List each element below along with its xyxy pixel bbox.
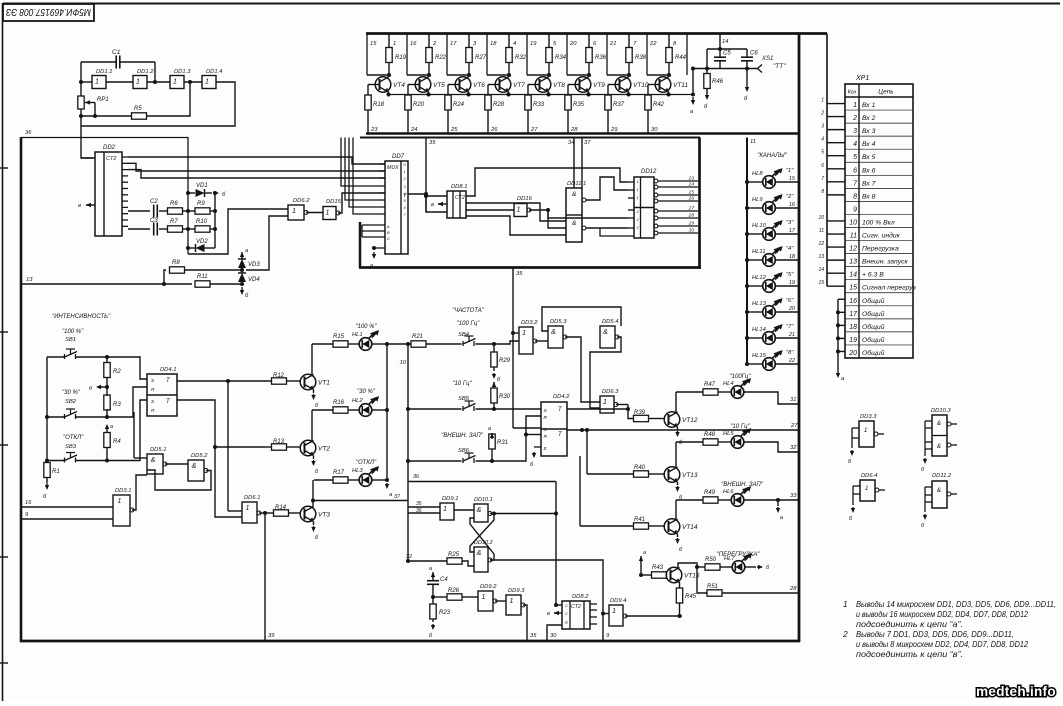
LED HL15 channel 8 bbox=[747, 363, 763, 365]
svg-text:MUX: MUX bbox=[387, 165, 399, 171]
XP1 row line bbox=[845, 227, 913, 229]
svg-text:R18: R18 bbox=[373, 102, 385, 108]
inverter DD3.2 bbox=[519, 327, 533, 354]
ground arrow b VT2 bbox=[313, 456, 315, 460]
wire stub XP1 pin 14 bbox=[827, 272, 845, 274]
wire bus to XP1 bbox=[826, 34, 828, 287]
wire DD12 output net 25 bbox=[654, 193, 658, 197]
svg-text:DD8.1: DD8.1 bbox=[451, 184, 467, 190]
svg-text:VT7: VT7 bbox=[513, 82, 525, 89]
svg-text:DD6.2: DD6.2 bbox=[293, 198, 310, 204]
resistor R36 bbox=[588, 34, 590, 49]
svg-text:подсоединить к цепи “в”.: подсоединить к цепи “в”. bbox=[856, 649, 963, 659]
pin stub DD7 bbox=[379, 206, 385, 208]
connector XS1 bbox=[758, 65, 763, 73]
resistor R8 bbox=[170, 267, 185, 273]
capacitor C1 bbox=[115, 56, 117, 69]
pin stubs DD8.2 outputs bbox=[590, 603, 597, 605]
wire stub XP1 pin 11 bbox=[827, 233, 845, 235]
wire bbox=[81, 81, 92, 83]
svg-text:27: 27 bbox=[688, 206, 695, 212]
wire net 13 from left border bbox=[21, 283, 192, 285]
wire bbox=[607, 74, 629, 76]
resistor R46 bbox=[704, 74, 710, 89]
title block text M5FI.469157.008 E3 (rotated) bbox=[6, 6, 91, 18]
counter DD2 bbox=[95, 152, 122, 236]
svg-text:&: & bbox=[151, 457, 156, 464]
svg-text:Сигн. индик: Сигн. индик bbox=[862, 232, 901, 240]
LED HL8 channel 1 bbox=[747, 181, 763, 183]
svg-text:R21: R21 bbox=[412, 334, 423, 340]
svg-text:37: 37 bbox=[584, 140, 591, 146]
svg-text:1: 1 bbox=[864, 428, 867, 434]
svg-text:R: R bbox=[544, 434, 548, 440]
svg-text:4: 4 bbox=[853, 141, 857, 148]
wire net 11 indicator box left bbox=[746, 138, 748, 365]
pin stub DD12 bbox=[628, 197, 634, 199]
svg-text:C: C bbox=[565, 603, 568, 608]
resistor R33 bbox=[525, 95, 531, 110]
svg-text:VT1: VT1 bbox=[318, 380, 330, 387]
wire bbox=[349, 138, 379, 208]
resistor R24 bbox=[445, 95, 451, 110]
wire bbox=[228, 510, 242, 512]
svg-text:R22: R22 bbox=[435, 55, 447, 61]
resistor R42 bbox=[645, 95, 651, 110]
wire bbox=[367, 110, 369, 134]
inverter DD15 bbox=[323, 207, 336, 220]
wire collector bbox=[311, 410, 313, 441]
svg-text:&: & bbox=[937, 421, 941, 427]
flip-flop DD4.2 bbox=[541, 402, 567, 456]
ground arrow b VT13 bbox=[677, 482, 679, 485]
svg-text:3: 3 bbox=[853, 128, 857, 135]
XP1 row line bbox=[845, 148, 913, 150]
svg-text:8: 8 bbox=[821, 189, 824, 195]
svg-text:+ 6.3 В: + 6.3 В bbox=[862, 272, 884, 279]
inverter DD9.1 bbox=[440, 503, 454, 520]
svg-text:DD5.1: DD5.1 bbox=[150, 447, 166, 453]
svg-text:C4: C4 bbox=[440, 577, 448, 583]
wire bbox=[134, 457, 147, 459]
ground arrow b VT3 bbox=[313, 522, 315, 526]
wire stub XP1 pin 4 bbox=[827, 142, 845, 144]
resistor R4 bbox=[106, 429, 108, 433]
wire DD12 output net 23 bbox=[654, 179, 658, 183]
wire bbox=[426, 196, 447, 212]
ground arrow b DD4.2 E pin bbox=[534, 446, 541, 448]
wire bbox=[81, 61, 116, 63]
resistor R47 bbox=[676, 391, 703, 393]
svg-text:"2": "2" bbox=[786, 194, 794, 200]
wire bbox=[526, 434, 541, 436]
resistor R50 bbox=[705, 564, 720, 570]
svg-text:1: 1 bbox=[510, 598, 514, 605]
svg-text:1: 1 bbox=[821, 98, 824, 104]
svg-text:2: 2 bbox=[820, 111, 824, 117]
svg-text:11: 11 bbox=[750, 139, 756, 145]
resistor R34 bbox=[548, 34, 550, 49]
svg-text:"100 %": "100 %" bbox=[355, 324, 377, 330]
svg-text:8: 8 bbox=[853, 193, 857, 200]
svg-text:19: 19 bbox=[849, 337, 857, 344]
svg-text:12: 12 bbox=[849, 246, 857, 253]
wire bbox=[81, 82, 235, 126]
svg-text:6: 6 bbox=[821, 163, 824, 169]
svg-text:R37: R37 bbox=[613, 102, 625, 108]
wire bbox=[210, 228, 215, 230]
cell divider wire net 15 bbox=[366, 34, 368, 76]
XP1 row line bbox=[845, 279, 913, 281]
svg-text:М5ФИ.469157.008 ЭЗ: М5ФИ.469157.008 ЭЗ bbox=[6, 6, 91, 18]
svg-text:HL14: HL14 bbox=[752, 327, 766, 333]
svg-text:DD16: DD16 bbox=[517, 196, 533, 202]
pin stub DD7 bbox=[379, 192, 385, 194]
XP1 row line bbox=[845, 331, 913, 333]
resistor R30 bbox=[493, 382, 495, 385]
wire bbox=[259, 512, 274, 514]
svg-text:DD10.2: DD10.2 bbox=[474, 540, 493, 546]
svg-text:1: 1 bbox=[637, 196, 639, 200]
wire base bbox=[408, 84, 420, 86]
logic DD11.1 and DD11.2 bbox=[566, 188, 582, 242]
svg-text:Вх 5: Вх 5 bbox=[862, 154, 876, 161]
transistor VT10 bbox=[615, 77, 631, 93]
inverter DD1.3 bbox=[170, 76, 184, 89]
svg-text:DD6.3: DD6.3 bbox=[602, 389, 619, 395]
ground arrow b VT12 bbox=[677, 427, 679, 430]
resistor R26 bbox=[447, 594, 462, 600]
pin stub DD12 bbox=[628, 235, 634, 237]
LED HL4 bbox=[718, 391, 731, 393]
svg-text:а: а bbox=[643, 550, 646, 556]
svg-text:16: 16 bbox=[25, 500, 32, 506]
arrow net a bbox=[432, 575, 434, 579]
cell divider wire net 20 bbox=[566, 34, 568, 76]
svg-text:R46: R46 bbox=[712, 79, 724, 85]
inverter DD9.3 bbox=[506, 595, 521, 615]
svg-text:14: 14 bbox=[849, 272, 857, 279]
svg-text:34: 34 bbox=[568, 140, 574, 146]
svg-text:33: 33 bbox=[790, 493, 797, 499]
resistor R40 bbox=[586, 430, 588, 474]
wire emitter bbox=[468, 92, 470, 95]
svg-text:Перегрузка: Перегрузка bbox=[862, 246, 899, 253]
resistor R20 bbox=[405, 95, 411, 110]
svg-text:R: R bbox=[544, 415, 548, 421]
arrow net a bbox=[106, 427, 108, 430]
wire left bus bbox=[46, 357, 48, 461]
svg-text:HL4: HL4 bbox=[723, 381, 734, 387]
ground arrow b bbox=[46, 477, 48, 482]
svg-text:1: 1 bbox=[292, 208, 296, 215]
wire emitter bbox=[628, 92, 630, 95]
wire DD8.1 out4 bbox=[466, 216, 566, 235]
svg-text:28: 28 bbox=[789, 586, 797, 592]
wire bbox=[494, 341, 519, 344]
wire bbox=[555, 482, 557, 606]
wire stub XP1 pin 1 bbox=[827, 103, 845, 105]
multiplexer DD7 bbox=[385, 161, 408, 254]
svg-text:A: A bbox=[386, 225, 390, 229]
resistor R18 bbox=[365, 95, 371, 110]
svg-text:R16: R16 bbox=[333, 400, 345, 406]
resistor R21 bbox=[411, 341, 426, 347]
svg-text:"5": "5" bbox=[786, 272, 794, 278]
wire bbox=[165, 463, 188, 465]
svg-text:а: а bbox=[488, 426, 491, 432]
svg-text:"10 Гц": "10 Гц" bbox=[730, 424, 750, 430]
wire bbox=[454, 509, 474, 511]
wire emitter bbox=[428, 92, 430, 95]
svg-text:10: 10 bbox=[849, 219, 857, 226]
wire bbox=[338, 193, 385, 213]
cell divider wire net 17 bbox=[446, 34, 448, 76]
svg-text:15: 15 bbox=[370, 41, 377, 47]
svg-text:R9: R9 bbox=[197, 201, 205, 207]
wire stub XP1 pin 13 bbox=[827, 259, 845, 261]
wire bbox=[154, 62, 156, 82]
svg-text:"3": "3" bbox=[786, 220, 794, 226]
resistor R44 bbox=[668, 34, 670, 49]
LED HL11 channel 4 bbox=[747, 259, 763, 261]
svg-text:1: 1 bbox=[517, 207, 521, 214]
wire bbox=[586, 177, 628, 200]
svg-text:"ВНЕШН. ЗАП": "ВНЕШН. ЗАП" bbox=[441, 433, 484, 439]
pin stub DD2 bbox=[122, 200, 128, 202]
wire bbox=[649, 418, 665, 420]
wire bbox=[640, 556, 642, 575]
resistor R11 bbox=[195, 281, 210, 287]
wire net 9 bbox=[490, 560, 603, 641]
svg-text:в: в bbox=[431, 202, 434, 208]
svg-text:VT14: VT14 bbox=[682, 524, 698, 531]
svg-text:HL11: HL11 bbox=[752, 249, 765, 255]
wire emitter VT15 to R45 bbox=[679, 582, 681, 588]
XP1 row line bbox=[845, 200, 913, 202]
resistor R15 bbox=[312, 343, 333, 345]
wire bbox=[628, 405, 633, 419]
LED HL3 bbox=[348, 479, 359, 481]
wire collector bbox=[675, 392, 677, 413]
svg-text:а: а bbox=[780, 515, 783, 521]
wire bbox=[487, 110, 489, 134]
svg-text:R2: R2 bbox=[113, 369, 121, 375]
svg-text:R8: R8 bbox=[172, 260, 180, 266]
svg-text:C: C bbox=[565, 611, 568, 616]
wire bbox=[432, 584, 434, 604]
power rail + bbox=[366, 32, 827, 35]
wire base bbox=[648, 84, 660, 86]
svg-text:R38: R38 bbox=[635, 55, 647, 61]
ground arrow a bbox=[386, 483, 388, 487]
svg-text:25: 25 bbox=[688, 190, 695, 196]
resistor R41 bbox=[579, 456, 581, 526]
resistor R25 bbox=[447, 558, 462, 564]
svg-text:Общий: Общий bbox=[862, 323, 885, 331]
middle box bottom border bbox=[359, 266, 701, 269]
wire cross couple bbox=[470, 518, 494, 560]
svg-text:1: 1 bbox=[853, 102, 857, 109]
wire emitter bbox=[668, 92, 670, 95]
resistor R37 bbox=[605, 95, 611, 110]
svg-text:DD11.2: DD11.2 bbox=[932, 473, 952, 479]
svg-text:Вх 1: Вх 1 bbox=[862, 102, 876, 109]
pin stub DD2 bbox=[122, 175, 128, 177]
transistor VT7 bbox=[495, 77, 511, 93]
svg-text:и выводы 8 микросхем DD2, DD4,: и выводы 8 микросхем DD2, DD4, DD7, DD8,… bbox=[856, 639, 1028, 649]
svg-text:1: 1 bbox=[865, 486, 868, 492]
wire bbox=[214, 193, 216, 248]
svg-text:"ЧАСТОТА": "ЧАСТОТА" bbox=[452, 308, 485, 314]
svg-text:12: 12 bbox=[818, 241, 824, 247]
wire bbox=[345, 138, 379, 201]
XP1 row line bbox=[845, 305, 913, 307]
svg-text:1: 1 bbox=[843, 599, 848, 609]
transistor VT4 bbox=[375, 77, 391, 93]
svg-text:&: & bbox=[477, 507, 482, 514]
wire net 14 from rail bbox=[719, 34, 721, 50]
svg-text:C5: C5 bbox=[723, 51, 731, 57]
svg-text:"30 %": "30 %" bbox=[357, 389, 376, 395]
svg-text:Выводы 7 DD1, DD3, DD5, DD6, D: Выводы 7 DD1, DD3, DD5, DD6, DD9...DD11, bbox=[856, 629, 1014, 639]
wire collector bbox=[312, 480, 314, 507]
wire stub XP1 pin 10 bbox=[827, 220, 845, 222]
wire DD4.1 out1 bbox=[177, 380, 271, 382]
svg-text:Вх 7: Вх 7 bbox=[862, 180, 876, 187]
nand DD5.3 bbox=[548, 326, 563, 348]
cell divider wire net 22 bbox=[646, 34, 648, 76]
wire bbox=[367, 85, 369, 96]
svg-text:VT8: VT8 bbox=[553, 82, 565, 89]
wire net 39 bbox=[264, 513, 266, 641]
svg-text:C1: C1 bbox=[112, 49, 121, 56]
transistor VT13 bbox=[664, 467, 680, 483]
schematic right border bbox=[798, 33, 801, 642]
pin stub DD12 bbox=[628, 189, 634, 191]
svg-text:23: 23 bbox=[370, 127, 378, 133]
wire bbox=[603, 613, 609, 615]
LED HL2 bbox=[348, 409, 359, 411]
middle box left border bbox=[359, 222, 362, 268]
svg-text:26: 26 bbox=[490, 127, 498, 133]
svg-text:16: 16 bbox=[789, 202, 796, 208]
pin stub DD2 bbox=[122, 162, 128, 164]
wire bbox=[215, 446, 265, 448]
wire clock input bbox=[81, 157, 95, 159]
svg-text:5: 5 bbox=[853, 154, 857, 161]
arrow net a bbox=[640, 559, 642, 563]
wire bbox=[433, 596, 447, 598]
svg-text:R1: R1 bbox=[52, 469, 60, 475]
pin stub DD2 bbox=[122, 213, 128, 215]
XP1 row line bbox=[845, 213, 913, 215]
resistor R19 bbox=[388, 34, 390, 49]
wire bbox=[513, 332, 519, 334]
svg-text:VT6: VT6 bbox=[473, 82, 485, 89]
wire bbox=[185, 269, 243, 271]
wire bbox=[183, 210, 196, 212]
wire DD12 output net 27 bbox=[654, 209, 658, 213]
svg-text:R14: R14 bbox=[275, 505, 287, 511]
svg-text:10: 10 bbox=[400, 360, 407, 366]
resistor R9 bbox=[195, 208, 210, 214]
svg-text:&: & bbox=[937, 444, 941, 450]
LED HL13 channel 6 bbox=[747, 311, 763, 313]
wire DD12 output net 28 bbox=[654, 216, 658, 220]
wire bbox=[607, 110, 609, 134]
svg-text:SB4: SB4 bbox=[458, 332, 469, 338]
input arrow v bbox=[86, 204, 89, 206]
diode VD1 bbox=[188, 192, 195, 194]
wire stub XP1 pin 15 bbox=[827, 285, 845, 287]
XP1 row line bbox=[845, 122, 913, 124]
svg-text:25: 25 bbox=[450, 127, 458, 133]
svg-text:&: & bbox=[477, 550, 482, 557]
svg-text:15: 15 bbox=[789, 176, 796, 182]
capacitor C3 bbox=[153, 223, 155, 236]
LED HL12 channel 5 bbox=[747, 285, 763, 287]
XP1 row line bbox=[845, 253, 913, 255]
wire bbox=[353, 138, 379, 215]
pin DD7 enable with ground bbox=[374, 247, 385, 249]
inverter DD1.4 bbox=[202, 76, 216, 89]
svg-text:DD10.3: DD10.3 bbox=[931, 408, 951, 414]
svg-text:24: 24 bbox=[688, 182, 695, 188]
svg-text:&: & bbox=[603, 329, 608, 336]
svg-text:&: & bbox=[192, 463, 197, 470]
svg-text:DD4.1: DD4.1 bbox=[160, 367, 176, 373]
svg-text:35: 35 bbox=[516, 271, 523, 277]
svg-text:"30 %": "30 %" bbox=[62, 390, 81, 396]
svg-text:R29: R29 bbox=[499, 358, 511, 364]
schematic bottom border bbox=[20, 640, 800, 643]
wire net 37 bbox=[581, 138, 583, 189]
wire bbox=[407, 110, 409, 134]
wire bbox=[487, 74, 509, 76]
inverter DD9.4 bbox=[609, 605, 623, 626]
svg-text:R19: R19 bbox=[395, 55, 407, 61]
transistor VT1 bbox=[300, 374, 316, 390]
wire bbox=[487, 85, 489, 96]
svg-text:"6": "6" bbox=[786, 298, 794, 304]
svg-text:C: C bbox=[387, 237, 390, 241]
svg-text:DD7: DD7 bbox=[392, 154, 405, 160]
pin stub DD2 bbox=[122, 225, 128, 227]
pin stub DD7 bbox=[379, 213, 385, 215]
wire DD8.1 to DD12 upper bbox=[466, 168, 628, 196]
svg-text:C6: C6 bbox=[750, 51, 758, 57]
svg-text:1: 1 bbox=[95, 79, 99, 86]
svg-text:18: 18 bbox=[789, 254, 796, 260]
svg-text:R4: R4 bbox=[113, 439, 121, 445]
svg-text:R: R bbox=[151, 408, 155, 414]
resistor R17 bbox=[314, 479, 333, 481]
svg-text:&: & bbox=[572, 220, 576, 227]
arrow net b bbox=[745, 566, 756, 568]
svg-text:HL13: HL13 bbox=[752, 301, 767, 307]
svg-text:10: 10 bbox=[818, 215, 824, 221]
wire bbox=[693, 68, 758, 70]
wire bbox=[367, 74, 389, 76]
svg-text:HL15: HL15 bbox=[752, 353, 767, 359]
svg-text:1: 1 bbox=[404, 170, 406, 174]
svg-text:11: 11 bbox=[819, 228, 824, 234]
svg-text:R41: R41 bbox=[634, 517, 645, 523]
wire bbox=[128, 228, 150, 230]
svg-text:R34: R34 bbox=[555, 55, 567, 61]
wire DD8.1 out3 bbox=[466, 209, 514, 211]
